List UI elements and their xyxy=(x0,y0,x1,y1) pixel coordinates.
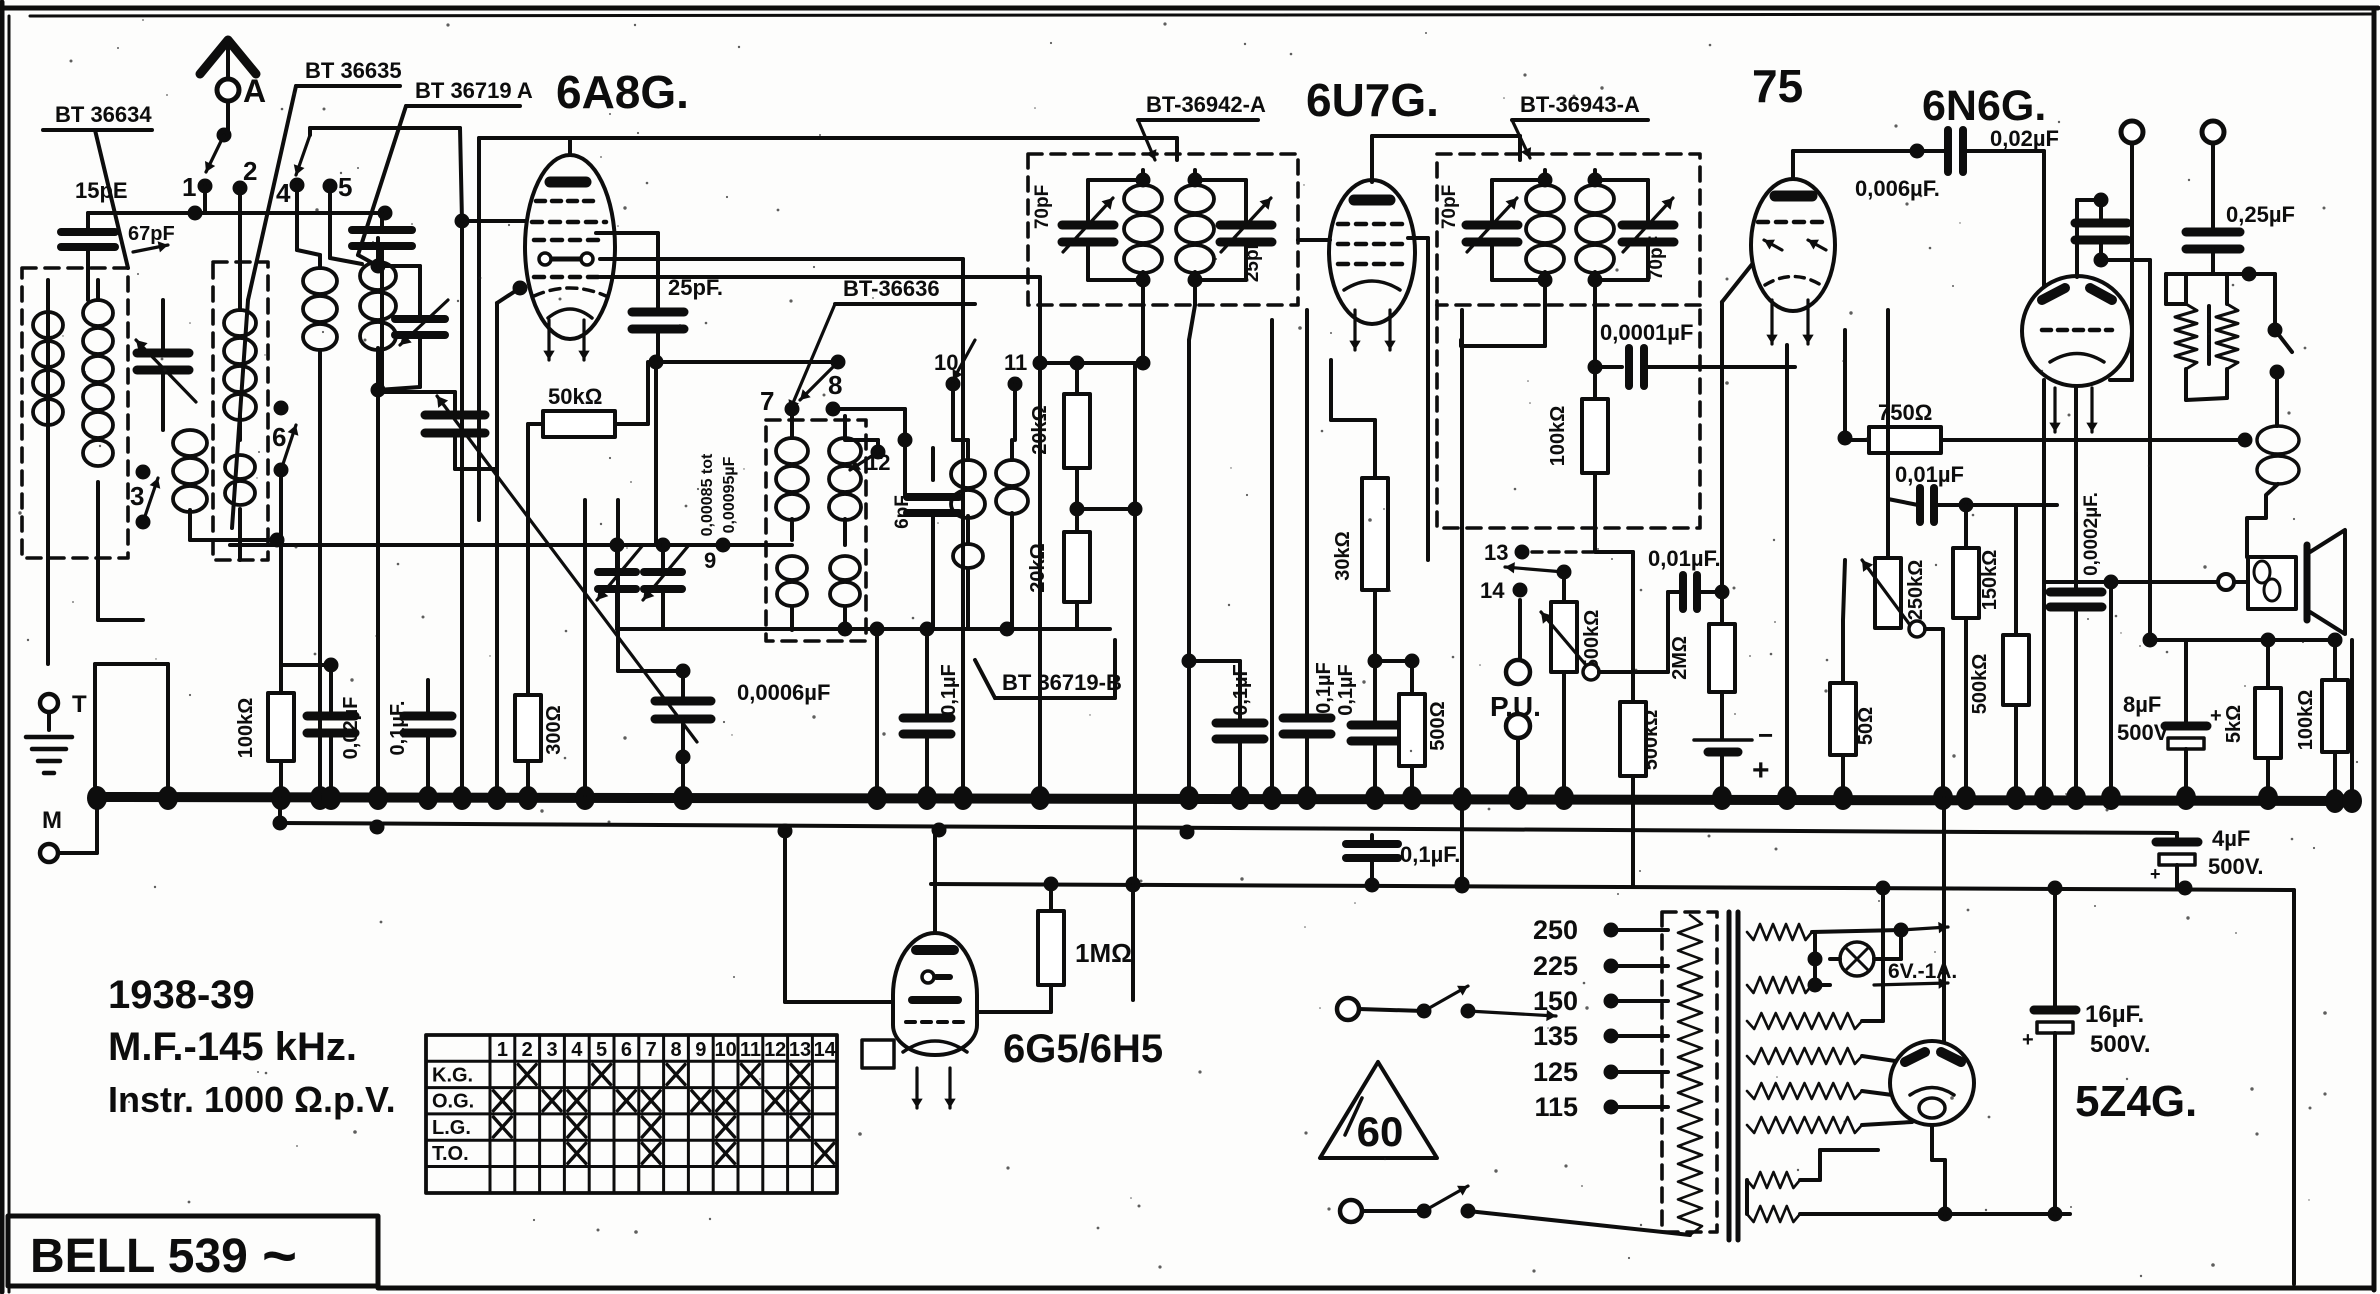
svg-text:5: 5 xyxy=(338,172,352,202)
choke coil xyxy=(2275,400,2279,426)
svg-text:250: 250 xyxy=(1533,915,1578,945)
wire xyxy=(2350,640,2354,801)
wire xyxy=(2109,582,2113,795)
wire xyxy=(1187,661,1191,795)
wire speaker line xyxy=(2044,580,2248,584)
coil osc B xyxy=(843,416,847,438)
svg-text:T: T xyxy=(72,691,87,718)
svg-text:0,0001µF: 0,0001µF xyxy=(1600,320,1693,345)
terminal T xyxy=(40,694,58,712)
svg-text:12: 12 xyxy=(764,1039,786,1061)
wire xyxy=(2150,638,2335,642)
svg-text:25pF.: 25pF. xyxy=(668,275,723,300)
wire xyxy=(1862,1056,1902,1062)
wire xyxy=(600,275,1040,279)
resistor (zigzag) xyxy=(2175,304,2197,369)
wire xyxy=(58,851,97,855)
svg-text:0,00085 tot: 0,00085 tot xyxy=(699,453,716,536)
coil osc C xyxy=(966,440,970,460)
wire xyxy=(1141,305,1145,363)
transformer core xyxy=(1727,912,1732,1240)
tube 75 cathode xyxy=(1765,277,1821,286)
svg-text:150kΩ: 150kΩ xyxy=(1979,550,2001,611)
wire xyxy=(1375,659,1412,663)
svg-text:0,1µF: 0,1µF xyxy=(1335,664,1357,716)
tube 6A8G plate xyxy=(550,177,586,188)
wire xyxy=(1785,345,1789,795)
svg-text:30kΩ: 30kΩ xyxy=(1332,531,1354,580)
wire xyxy=(654,362,658,545)
IF transformer BT 36634 box xyxy=(22,268,128,558)
tube 6G5 grid xyxy=(912,996,958,1004)
wire xyxy=(1720,752,1724,795)
svg-text:10: 10 xyxy=(714,1039,736,1061)
border frame outer xyxy=(2,6,2378,11)
coil osc A2 xyxy=(777,556,807,580)
resistor (zigzag2) xyxy=(2216,304,2238,369)
svg-text:6: 6 xyxy=(621,1039,632,1061)
wire (grid) xyxy=(462,219,552,223)
svg-text:BT 36719-B: BT 36719-B xyxy=(1002,670,1122,695)
svg-text:BT-36943-A: BT-36943-A xyxy=(1520,92,1640,117)
wire xyxy=(1791,151,1795,179)
wire xyxy=(1593,300,1597,367)
mains switch xyxy=(1337,998,1359,1020)
svg-text:6A8G.: 6A8G. xyxy=(556,66,689,118)
svg-text:7: 7 xyxy=(760,386,774,416)
svg-text:2MΩ: 2MΩ xyxy=(1669,636,1691,680)
tube 6G5 leads xyxy=(915,1068,918,1108)
wire xyxy=(1966,503,2057,507)
terminal out2 xyxy=(2202,121,2224,143)
wire xyxy=(875,629,879,795)
tube 75 rows xyxy=(1758,220,1828,225)
wire xyxy=(46,418,50,558)
tube 6U7G cathode xyxy=(1344,281,1400,290)
wire xyxy=(2292,890,2296,1284)
heater winding 2 xyxy=(1747,977,1812,993)
svg-text:135: 135 xyxy=(1533,1021,1578,1051)
tube 75 diodes xyxy=(1764,240,1782,250)
tube 6A8G row4 xyxy=(539,253,551,265)
svg-text:50kΩ: 50kΩ xyxy=(548,384,602,409)
svg-text:+: + xyxy=(2210,705,2222,727)
wire xyxy=(616,500,620,671)
svg-text:0,1µF: 0,1µF xyxy=(938,664,960,716)
svg-text:11: 11 xyxy=(1004,350,1027,375)
IF transformer BT 36635 box xyxy=(213,262,268,560)
svg-text:0,01µF: 0,01µF xyxy=(1895,462,1964,487)
wire xyxy=(1459,340,1463,346)
wire xyxy=(226,101,230,133)
pilot lamp 6V-1A xyxy=(1840,942,1874,976)
svg-text:BELL 539: BELL 539 xyxy=(30,1230,248,1283)
tube 6G5 envelope xyxy=(893,933,977,1055)
svg-text:500V.: 500V. xyxy=(2090,1031,2151,1058)
svg-text:3: 3 xyxy=(546,1039,557,1061)
transformer primary winding xyxy=(1678,915,1702,1235)
svg-text:500Ω: 500Ω xyxy=(1427,701,1449,750)
svg-text:0,01µF.: 0,01µF. xyxy=(1648,546,1721,571)
tube 6A8G grid row3 xyxy=(534,238,604,243)
wire xyxy=(1270,320,1274,795)
wire xyxy=(600,257,963,261)
wire xyxy=(238,188,242,300)
svg-text:2: 2 xyxy=(243,156,257,186)
wire xyxy=(161,370,165,430)
tube 75 plate xyxy=(1775,191,1812,202)
svg-text:9: 9 xyxy=(704,548,716,573)
gang arrow xyxy=(437,396,697,742)
svg-text:Instr. 1000 Ω.p.V.: Instr. 1000 Ω.p.V. xyxy=(108,1079,396,1120)
coil L3 xyxy=(238,300,242,310)
IF transformer BT-36942-A box xyxy=(1028,154,1298,305)
svg-text:0,25µF: 0,25µF xyxy=(2226,202,2295,227)
switch arm xyxy=(1557,565,1572,580)
speaker xyxy=(2248,557,2296,609)
svg-text:67pF: 67pF xyxy=(128,223,175,245)
svg-text:14: 14 xyxy=(1480,578,1505,603)
wire xyxy=(318,378,322,795)
wire xyxy=(1543,300,1547,346)
wire xyxy=(96,558,100,620)
terminal out1 xyxy=(2121,121,2143,143)
wire xyxy=(1038,363,1042,795)
wire xyxy=(460,221,464,795)
coil L1a xyxy=(46,280,50,312)
pickup P.U. xyxy=(1518,600,1522,660)
wire xyxy=(783,831,787,1002)
wire xyxy=(47,712,51,730)
svg-text:K.G.: K.G. xyxy=(432,1064,473,1086)
svg-text:8: 8 xyxy=(670,1039,681,1061)
svg-text:7: 7 xyxy=(646,1039,657,1061)
wire xyxy=(308,128,312,135)
svg-text:5kΩ: 5kΩ xyxy=(2223,705,2245,743)
svg-text:100kΩ: 100kΩ xyxy=(1547,406,1569,467)
svg-text:+: + xyxy=(1752,754,1770,787)
wire xyxy=(1013,384,1017,440)
tube 75 envelope xyxy=(1751,179,1835,311)
svg-text:0,1µF.: 0,1µF. xyxy=(387,701,409,756)
wire xyxy=(358,255,378,266)
band table grid xyxy=(426,1035,837,1193)
wire xyxy=(1492,178,1545,182)
wire line B xyxy=(931,884,2294,890)
wire xyxy=(1942,798,1946,1041)
coil IFT2 prim xyxy=(1543,170,1547,185)
variable capacitor (gang) xyxy=(425,411,485,420)
wire xyxy=(1800,1212,2070,1216)
tube 6N6G envelope xyxy=(2022,276,2132,386)
wire xyxy=(376,390,380,795)
svg-text:70pF: 70pF xyxy=(1032,185,1053,229)
ground bus (chassis) xyxy=(95,797,2352,801)
tube 6G5 bar xyxy=(922,971,934,983)
svg-text:0,1µF.: 0,1µF. xyxy=(1400,842,1460,867)
HV winding xyxy=(1747,1013,1862,1029)
tube 6G5 target xyxy=(903,1041,967,1052)
coil L5 xyxy=(376,238,380,262)
wire xyxy=(1886,310,1890,499)
svg-text:A: A xyxy=(243,73,266,109)
svg-text:11: 11 xyxy=(740,1039,761,1061)
wire xyxy=(88,211,390,215)
wire plate feed riser xyxy=(477,138,481,520)
border frame inner left xyxy=(8,16,11,1292)
switch arm xyxy=(800,362,838,400)
wire (6U7G grid) xyxy=(1298,238,1330,242)
wire xyxy=(281,663,331,667)
tube 6N6G leads xyxy=(2053,388,2056,432)
coil L2 xyxy=(173,430,207,456)
wire xyxy=(1331,418,1375,422)
svg-text:~: ~ xyxy=(262,1222,297,1289)
wire xyxy=(1195,178,1246,182)
svg-text:+: + xyxy=(2150,864,2161,884)
coil osc A xyxy=(790,416,794,438)
svg-text:9: 9 xyxy=(695,1039,706,1061)
transformer primary box xyxy=(1662,912,1717,1232)
svg-text:5: 5 xyxy=(596,1039,607,1061)
tube 6U7G plate xyxy=(1354,195,1390,206)
tube 6A8G row5 xyxy=(534,275,604,280)
coil osc D xyxy=(1010,440,1014,460)
svg-text:BT-36942-A: BT-36942-A xyxy=(1146,92,1266,117)
tube 5Z4G envelope xyxy=(1890,1041,1974,1125)
wire xyxy=(1077,507,1135,511)
wire xyxy=(1843,330,1847,438)
wire (75 diode feed) xyxy=(1720,302,1724,592)
tube 6A8G grid row2 xyxy=(532,220,606,225)
wire xyxy=(460,128,462,221)
tube 6U7G rows xyxy=(1338,222,1406,227)
wire xyxy=(951,384,955,440)
IF transformer BT-36943-A box xyxy=(1437,154,1700,305)
heater winding xyxy=(1747,924,1812,940)
title box BELL 539 xyxy=(8,1216,378,1286)
wire xyxy=(596,231,658,235)
tube 6A8G envelope xyxy=(525,155,615,339)
wire xyxy=(1370,136,1374,182)
wire xyxy=(2101,258,2150,262)
junction xyxy=(575,786,595,810)
wire xyxy=(2213,272,2275,276)
svg-text:5Z4G.: 5Z4G. xyxy=(2075,1077,2197,1126)
svg-text:3: 3 xyxy=(130,481,144,511)
svg-text:50Ω: 50Ω xyxy=(1855,707,1877,745)
svg-text:6U7G.: 6U7G. xyxy=(1306,74,1439,126)
wire xyxy=(279,470,283,693)
svg-text:13: 13 xyxy=(1484,540,1508,565)
band table X marks xyxy=(518,1064,536,1084)
variable capacitor padder2 xyxy=(644,568,682,576)
coil L1b xyxy=(96,280,100,300)
tube 6A8G leads xyxy=(547,320,550,360)
wire xyxy=(1925,627,1943,631)
svg-text:16µF.: 16µF. xyxy=(2085,1001,2144,1028)
wire xyxy=(1040,361,1143,365)
tube 5Z4G filament xyxy=(1910,1088,1954,1096)
svg-text:100kΩ: 100kΩ xyxy=(235,698,257,759)
svg-text:14: 14 xyxy=(814,1039,837,1061)
wire xyxy=(1599,670,1668,674)
svg-text:1: 1 xyxy=(182,172,196,202)
wire xyxy=(1408,236,1428,240)
svg-text:+: + xyxy=(2022,1029,2034,1051)
junction xyxy=(371,259,386,274)
switch contact arm xyxy=(206,135,224,172)
svg-text:500kΩ: 500kΩ xyxy=(1969,654,1991,715)
coil L3b xyxy=(225,455,255,479)
svg-text:0,006µF.: 0,006µF. xyxy=(1855,176,1940,201)
border frame inner top xyxy=(30,14,2374,16)
coil osc B2 xyxy=(830,556,860,580)
svg-text:O.G.: O.G. xyxy=(432,1091,474,1113)
svg-text:BT 36635: BT 36635 xyxy=(305,58,402,83)
wire (plate top) xyxy=(568,138,572,155)
wire xyxy=(905,495,907,499)
capacitor plate xyxy=(2207,306,2211,364)
svg-text:0,00095µF: 0,00095µF xyxy=(721,456,738,533)
svg-text:6N6G.: 6N6G. xyxy=(1922,82,2046,130)
svg-text:300Ω: 300Ω xyxy=(543,705,565,754)
wire xyxy=(328,186,332,258)
svg-text:15pE: 15pE xyxy=(75,178,128,203)
variable capacitor xyxy=(378,264,420,268)
svg-text:0,02µF: 0,02µF xyxy=(340,697,362,760)
coil IFT1 prim xyxy=(1141,170,1145,185)
svg-text:M: M xyxy=(42,807,62,834)
ground xyxy=(26,735,72,740)
svg-text:115: 115 xyxy=(1534,1092,1578,1122)
wire xyxy=(1131,885,1135,1000)
wire xyxy=(1862,1019,1883,1023)
wire xyxy=(1800,1178,1820,1182)
svg-text:500V.: 500V. xyxy=(2208,854,2263,879)
tube 6A8G cathode xyxy=(534,288,606,296)
wire xyxy=(190,538,277,542)
svg-text:0,0006µF: 0,0006µF xyxy=(737,680,830,705)
svg-text:BT 36634: BT 36634 xyxy=(55,102,152,127)
svg-text:100kΩ: 100kΩ xyxy=(2295,690,2317,751)
wire xyxy=(1460,310,1464,346)
tube 75 leads xyxy=(1770,300,1773,344)
tube 5Z4G anodes xyxy=(1905,1052,1925,1062)
svg-text:−: − xyxy=(1758,720,1773,750)
wire xyxy=(656,360,838,364)
fuse triangle 60 xyxy=(1320,1062,1437,1158)
svg-text:13: 13 xyxy=(789,1039,811,1061)
svg-text:4: 4 xyxy=(276,178,291,208)
svg-text:0,1µF: 0,1µF xyxy=(1313,662,1335,714)
antenna A xyxy=(200,40,256,74)
wire xyxy=(2186,398,2227,400)
wire xyxy=(1088,178,1143,182)
tube 6U7G envelope xyxy=(1329,180,1415,324)
tube 6N6G cathode xyxy=(2050,354,2104,363)
variable capacitor xyxy=(161,300,165,352)
svg-text:0,0002µF.: 0,0002µF. xyxy=(2081,492,2102,576)
svg-text:150: 150 xyxy=(1533,986,1578,1016)
wire xyxy=(1133,363,1137,884)
wire xyxy=(495,303,499,795)
tube 6U7G leads xyxy=(1353,310,1356,350)
svg-text:L.G.: L.G. xyxy=(432,1117,471,1139)
variable capacitor padder xyxy=(598,568,636,576)
wire xyxy=(1595,550,1633,554)
svg-text:500V: 500V xyxy=(2117,720,2169,745)
svg-text:250kΩ: 250kΩ xyxy=(1905,560,1927,621)
bottom winding xyxy=(1747,1172,1800,1188)
wire xyxy=(295,185,299,250)
IF transformer BT-36943-A box ext xyxy=(1437,305,1700,528)
svg-text:2: 2 xyxy=(522,1039,533,1061)
coil IFT1 sec xyxy=(1193,170,1197,185)
svg-text:4µF: 4µF xyxy=(2212,826,2250,851)
wire xyxy=(230,543,656,547)
svg-text:4: 4 xyxy=(571,1039,583,1061)
wire xyxy=(479,136,1177,140)
svg-text:1938-39: 1938-39 xyxy=(108,973,255,1017)
switch (speaker) xyxy=(2273,274,2277,330)
IF transformer BT-36636 box xyxy=(766,420,866,641)
tube 6G5 top cap xyxy=(916,945,954,955)
wire xyxy=(833,407,905,411)
wire xyxy=(1595,178,1648,182)
svg-text:8µF: 8µF xyxy=(2123,692,2161,717)
wire xyxy=(203,186,207,213)
mains switch 2 xyxy=(1340,1200,1362,1222)
svg-text:8: 8 xyxy=(828,370,842,400)
switch arm xyxy=(296,135,310,175)
wire xyxy=(933,830,937,935)
wire xyxy=(1189,305,1195,340)
wire xyxy=(845,438,878,442)
svg-text:BT 36719 A: BT 36719 A xyxy=(415,78,533,103)
svg-text:6V.-1A.: 6V.-1A. xyxy=(1888,960,1957,983)
tube 6N6G grids xyxy=(2042,288,2065,300)
wire line A xyxy=(278,798,282,823)
coil L4 xyxy=(318,255,322,268)
wire bottom row xyxy=(700,627,1110,631)
svg-text:1: 1 xyxy=(497,1039,508,1061)
svg-text:70pF: 70pF xyxy=(1439,185,1460,229)
coil IFT2 sec xyxy=(1593,170,1597,185)
svg-text:125: 125 xyxy=(1533,1057,1578,1087)
svg-text:BT-36636: BT-36636 xyxy=(843,276,940,301)
svg-text:225: 225 xyxy=(1533,951,1578,981)
wire 9 row xyxy=(663,543,792,547)
svg-text:75: 75 xyxy=(1752,60,1803,112)
svg-text:60: 60 xyxy=(1357,1108,1404,1155)
battery bias cell xyxy=(1694,738,1752,742)
svg-text:6G5/6H5: 6G5/6H5 xyxy=(1003,1027,1163,1071)
svg-text:6: 6 xyxy=(272,422,286,452)
tube 6A8G grid rows xyxy=(536,199,600,204)
svg-text:1MΩ: 1MΩ xyxy=(1075,938,1132,968)
svg-text:M.F.-145 kHz.: M.F.-145 kHz. xyxy=(108,1025,357,1069)
svg-text:T.O.: T.O. xyxy=(432,1143,469,1165)
